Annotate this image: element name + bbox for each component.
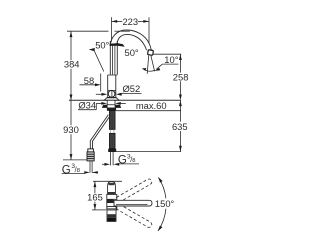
swivel arc arrow upper bbox=[158, 177, 162, 183]
svg-text:G: G bbox=[62, 164, 71, 176]
hose end nut bbox=[108, 149, 116, 152]
hose end level extension line bbox=[116, 151, 182, 153]
leader line to open lever bbox=[94, 51, 104, 72]
spout inner arc bbox=[117, 34, 147, 50]
spray cone lines bbox=[147, 56, 149, 74]
shank below nut bbox=[107, 108, 116, 111]
pull-out hose nut bbox=[88, 149, 94, 152]
countertop top line bbox=[69, 99, 181, 101]
dimension 223 extension line left bbox=[111, 17, 113, 41]
dimension 384 top extension line bbox=[67, 30, 109, 32]
spray angle arc bbox=[143, 69, 155, 72]
svg-text:G: G bbox=[118, 154, 127, 166]
dimension 384 line bbox=[70, 31, 72, 60]
base escutcheon bbox=[107, 96, 116, 98]
wing nut center bbox=[107, 105, 115, 108]
svg-text:Ø52: Ø52 bbox=[123, 83, 141, 94]
svg-text:58: 58 bbox=[84, 75, 94, 86]
dimension 930 arrow bottom bbox=[70, 154, 73, 160]
svg-text:165: 165 bbox=[87, 192, 103, 203]
svg-text:50°: 50° bbox=[95, 40, 109, 51]
dimension 58 extension line bbox=[100, 74, 102, 92]
dimension 930 bottom extension line bbox=[63, 159, 88, 161]
dimension 223 line bbox=[112, 20, 123, 22]
swivel range arc bbox=[158, 178, 166, 199]
faucet riser tube bbox=[109, 41, 111, 75]
svg-text:max.60: max.60 bbox=[136, 100, 167, 111]
pull-out hose (copper pipe) bbox=[90, 115, 108, 150]
plan bottom extension line bbox=[92, 209, 106, 211]
hose end pipe G3/8 bbox=[110, 152, 112, 165]
G3/8 right arrows bbox=[102, 163, 104, 165]
dimension 258 line bbox=[179, 54, 181, 72]
spout outer arc bbox=[110, 30, 151, 50]
svg-text:50°: 50° bbox=[125, 47, 139, 58]
svg-text:150°: 150° bbox=[155, 198, 175, 209]
G3/8 left arrows bbox=[84, 171, 86, 173]
swivel arc arrow lower bbox=[158, 226, 163, 232]
braided supply hose upper segment bbox=[109, 111, 115, 130]
dimension 930 line bbox=[70, 100, 72, 125]
mounting wing nut right ear bbox=[115, 105, 121, 108]
dimension 223 arrow right bbox=[143, 20, 149, 23]
dimension 58 leader and arrow bbox=[80, 84, 97, 86]
outlet level extension line bbox=[153, 53, 182, 55]
plan body bbox=[107, 194, 117, 210]
diameter 34 arrows bbox=[96, 102, 101, 104]
svg-text:8: 8 bbox=[77, 168, 80, 174]
dimension 384 arrow top bbox=[70, 31, 73, 37]
dimension 384 arrow bottom bbox=[70, 95, 73, 101]
dimension 223 arrow left bbox=[112, 20, 118, 23]
svg-text:Ø34: Ø34 bbox=[78, 100, 96, 111]
mounting wing nut left ear bbox=[102, 105, 107, 108]
svg-text:8: 8 bbox=[132, 158, 135, 164]
swivel joint circle bbox=[108, 90, 115, 97]
pull-out hose end pipe bbox=[89, 161, 91, 173]
plan dashed swivel position upper bbox=[114, 178, 153, 204]
svg-text:930: 930 bbox=[63, 124, 79, 135]
lever handle (black) bbox=[110, 43, 125, 47]
svg-text:384: 384 bbox=[64, 59, 80, 70]
faucet body lower section bbox=[107, 75, 109, 97]
plan dashed swivel position lower bbox=[114, 203, 153, 229]
dimension 165 line bbox=[94, 181, 96, 193]
plan pivot dark ring bbox=[107, 199, 114, 203]
dimension 223 extension line right bbox=[148, 17, 150, 44]
countertop underside line bbox=[116, 110, 181, 112]
dimension 635 line bbox=[179, 100, 181, 121]
svg-text:10°: 10° bbox=[164, 54, 178, 65]
mounting shank upper bbox=[107, 100, 115, 105]
aerator bbox=[148, 50, 154, 56]
plan spout bar bbox=[114, 200, 152, 206]
svg-text:635: 635 bbox=[172, 121, 188, 132]
plan base stack bbox=[107, 207, 116, 222]
diameter 52 arrows bbox=[96, 93, 102, 95]
hose break gap lines bbox=[110, 130, 112, 134]
plan top extension line bbox=[93, 180, 122, 182]
svg-text:258: 258 bbox=[173, 71, 189, 82]
svg-text:223: 223 bbox=[122, 16, 138, 27]
plan handle base band bbox=[108, 192, 116, 194]
braided supply hose lower segment bbox=[109, 133, 115, 148]
plan lever handle bbox=[108, 181, 116, 194]
